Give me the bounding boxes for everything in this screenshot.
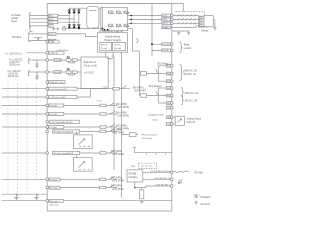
analog block 2 cap branch bbox=[35, 72, 38, 80]
svg-text:input: input bbox=[11, 19, 17, 23]
svg-text:250 mA: 250 mA bbox=[114, 47, 122, 50]
rectifier diode bottom 2 bbox=[73, 25, 76, 28]
svg-text:240V AC, 2A: 240V AC, 2A bbox=[185, 92, 199, 95]
svg-text:(+) I/O Com (24V): (+) I/O Com (24V) bbox=[49, 89, 67, 91]
IGBT glyphs bbox=[63, 11, 129, 29]
left dashed field wiring grid bbox=[8, 83, 37, 193]
svg-text:+10V (PNP): +10V (PNP) bbox=[112, 154, 124, 156]
wire L1 bbox=[30, 15, 48, 17]
svg-text:COM RS-485 C: COM RS-485 C bbox=[155, 185, 170, 187]
terminal RS485 B bbox=[171, 178, 174, 181]
right terminal bus bbox=[171, 4, 173, 212]
left field wire row 105 bbox=[2, 105, 48, 107]
svg-text:Chassis: Chassis bbox=[200, 195, 211, 199]
digin switch row 114 bbox=[106, 111, 117, 114]
terminal relay1 NC bbox=[171, 80, 174, 83]
IGBT U lower bbox=[109, 24, 114, 28]
svg-text:07 DigIn: 07 DigIn bbox=[49, 127, 58, 129]
digin switch row 153 bbox=[106, 150, 117, 153]
digin wire row 114 bbox=[64, 113, 100, 115]
terminal digin 11 bbox=[46, 178, 49, 181]
terminal analog out 54 bbox=[171, 123, 174, 126]
middle vertical rail B bbox=[121, 52, 123, 198]
svg-text:(R) RS-485 (RJ45) A: (R) RS-485 (RJ45) A bbox=[151, 170, 171, 173]
terminal W/T3 bbox=[171, 22, 174, 25]
choke jumper symbol bbox=[34, 37, 42, 40]
terminal relay2 COM bbox=[171, 94, 174, 97]
RS485 direction arrow bbox=[178, 179, 183, 184]
svg-text:+10V: +10V bbox=[49, 42, 55, 44]
relay 2 rating brace B bbox=[181, 95, 184, 104]
relay 2 wire NC bbox=[158, 102, 166, 104]
svg-text:P2/D+: P2/D+ bbox=[49, 34, 56, 36]
svg-text:09 DigIn TermBlk 09: 09 DigIn TermBlk 09 bbox=[53, 152, 73, 155]
left field wire row 127 bbox=[2, 126, 48, 128]
svg-text:T/L3: T/L3 bbox=[49, 22, 54, 24]
black power semiconductors bbox=[68, 10, 153, 189]
relay 2 terminal label boxes bbox=[166, 87, 171, 90]
terminal digin 08 bbox=[46, 130, 49, 133]
svg-text:24V (NPN): 24V (NPN) bbox=[116, 126, 127, 128]
analog out terminal label box 34 bbox=[166, 106, 171, 109]
output junction dot W bbox=[130, 23, 132, 25]
digin resistor row 114 bbox=[100, 113, 106, 116]
wire BR+ bbox=[152, 43, 172, 45]
svg-text:24V (NPN): 24V (NPN) bbox=[111, 177, 122, 179]
middle vertical rail A bbox=[112, 56, 115, 170]
relay 1 terminal label boxes bbox=[166, 64, 171, 67]
terminal analog in 1 bbox=[46, 59, 49, 62]
analog output meter box bbox=[175, 116, 184, 125]
svg-text:(R1) Relay 1: (R1) Relay 1 bbox=[157, 63, 171, 65]
relay 2 wire COM bbox=[158, 95, 166, 97]
analog output meter mark bbox=[178, 119, 182, 123]
brake resistor brace bbox=[179, 42, 182, 52]
svg-text:(0) AnlgOut 0-10V: (0) AnlgOut 0-10V bbox=[149, 114, 165, 117]
digin wire row 105 bbox=[64, 105, 100, 107]
svg-text:DigIn 26 mA: DigIn 26 mA bbox=[84, 61, 97, 64]
svg-text:12 DigIn: 12 DigIn bbox=[50, 188, 59, 190]
terminal box P2 bbox=[48, 33, 56, 36]
connector pin 2 bbox=[200, 20, 203, 22]
digin switch row 179 bbox=[106, 176, 117, 179]
svg-text:05 DigIn: 05 DigIn bbox=[49, 106, 58, 108]
terminal relay2 NO bbox=[171, 87, 174, 90]
SMPS 10V sub-box bbox=[113, 43, 126, 51]
wire capsule to inverter top bbox=[99, 7, 102, 9]
svg-text:DC+/R+: DC+/R+ bbox=[162, 44, 171, 46]
termination ground bbox=[140, 202, 143, 204]
digin switch row 187 bbox=[106, 185, 117, 188]
cable hatch ticks bbox=[178, 15, 196, 25]
label box row 179 bbox=[49, 178, 60, 181]
SW dashed box bbox=[139, 163, 157, 168]
terminal box BR+ bbox=[162, 43, 171, 46]
rectifier diode top 2 bbox=[73, 10, 76, 13]
analog out terminal label box 36 bbox=[166, 116, 171, 119]
svg-text:24V (NPN): 24V (NPN) bbox=[111, 129, 122, 131]
wide label box row 97 bbox=[48, 96, 77, 99]
DC- junction dot bbox=[78, 28, 80, 30]
relay 1 wire NC bbox=[158, 80, 166, 82]
svg-text:OFF shown: OFF shown bbox=[141, 138, 153, 140]
IGBT U upper bbox=[109, 11, 114, 15]
wide label box row 121 RS485 RJ45 bbox=[50, 120, 80, 123]
relay 1 wire NO bbox=[158, 65, 166, 67]
option box contents row 131 bbox=[79, 139, 90, 147]
terminal BR+ bbox=[171, 43, 174, 46]
option box link row 153 bbox=[76, 155, 78, 158]
svg-text:100-20 mA: 100-20 mA bbox=[8, 75, 20, 78]
SMPS output wire B bbox=[112, 52, 114, 55]
svg-text:24V (NPN): 24V (NPN) bbox=[111, 186, 122, 188]
analog input wire 1 bbox=[29, 59, 54, 61]
long label box row 153 bbox=[53, 151, 80, 154]
IGBT W lower bbox=[124, 24, 129, 28]
terminal analog in 2 bbox=[46, 71, 49, 74]
comb bus line bbox=[135, 153, 172, 155]
svg-text:0-20 mA: 0-20 mA bbox=[186, 121, 195, 124]
terminal box PE bbox=[48, 25, 53, 28]
CPU terminator wire bbox=[122, 134, 139, 136]
svg-text:U/T1: U/T1 bbox=[162, 15, 168, 17]
wide label box row 88 bbox=[48, 87, 77, 90]
terminal digin 05 bbox=[46, 104, 49, 107]
terminal box W/T3 bbox=[162, 22, 171, 25]
svg-text:24V (NPN): 24V (NPN) bbox=[111, 151, 122, 153]
motor box bbox=[204, 16, 213, 27]
SMPS output wire A bbox=[104, 52, 106, 57]
connector pin 1 bbox=[200, 17, 203, 19]
digin wire row 131 bbox=[80, 131, 100, 133]
relay 2 coil wires bbox=[139, 94, 158, 96]
svg-text:CPU Terminated: CPU Terminated bbox=[141, 134, 157, 137]
terminal digin 07 bbox=[46, 126, 49, 129]
inner horizontal wire near bottom bbox=[2, 200, 172, 202]
svg-text:08 DigIn TermBlk 08: 08 DigIn TermBlk 08 bbox=[53, 131, 73, 134]
inverter bottom dots bbox=[101, 28, 103, 30]
terminal analog out 36 bbox=[171, 116, 174, 119]
output junction dot V bbox=[130, 19, 132, 21]
SMPS box bbox=[98, 33, 128, 53]
termination resistor wires bbox=[141, 188, 143, 190]
spec box brace bbox=[107, 57, 113, 59]
terminal I/O common bbox=[46, 81, 49, 84]
wire L1 to rectifier bbox=[58, 15, 70, 17]
analog out terminal label box 54 bbox=[166, 123, 171, 126]
svg-text:P(D) RS-485 +B: P(D) RS-485 +B bbox=[155, 178, 171, 180]
label box row 187 bbox=[49, 186, 60, 189]
analog output wires bbox=[172, 117, 175, 124]
terminal BR- bbox=[171, 49, 174, 52]
svg-text:04 NB: 04 NB bbox=[55, 72, 62, 74]
inverter box bbox=[101, 7, 128, 30]
motor connector block bbox=[199, 16, 204, 27]
analog block 1 bracket bbox=[29, 59, 30, 64]
drive ground symbol 2 bbox=[187, 31, 191, 35]
svg-text:11 DigIn: 11 DigIn bbox=[50, 180, 59, 182]
svg-text:PE: PE bbox=[49, 26, 51, 28]
terminal U/T1 bbox=[171, 14, 174, 17]
CPU terminator box bbox=[129, 133, 136, 137]
T antenna symbol bbox=[133, 147, 136, 152]
left field wire row 88 bbox=[2, 88, 48, 90]
terminal V/T2 bbox=[171, 18, 174, 21]
terminal digin 09 bbox=[46, 152, 49, 155]
wire BR- bbox=[152, 49, 172, 51]
svg-text:Power Supply: Power Supply bbox=[104, 38, 121, 42]
connector pin 4 bbox=[200, 25, 203, 27]
wire L3 to rectifier bbox=[58, 21, 79, 23]
wire +10V supply bbox=[27, 52, 49, 54]
terminal digin 06 bbox=[46, 113, 49, 116]
relay 1 coil wires bbox=[139, 72, 158, 74]
terminal box U/T1 bbox=[162, 14, 171, 17]
svg-text:13 DigIn C: 13 DigIn C bbox=[50, 201, 61, 203]
ground PE symbol 1 bbox=[52, 27, 55, 30]
digin wire row 153 bbox=[80, 152, 100, 154]
wire DC- P1 bbox=[29, 40, 48, 42]
rectifier DC+ top bus bbox=[69, 7, 87, 9]
termination resistor bbox=[140, 190, 144, 199]
analog input wire 2 bbox=[29, 71, 54, 73]
motor ground symbol bbox=[213, 28, 216, 30]
relay 2 contact blade bbox=[156, 91, 159, 95]
rail brace bbox=[136, 39, 138, 43]
RS485 wire 2 bbox=[143, 178, 172, 180]
relay 1 coil bbox=[140, 72, 146, 76]
terminal relay2 NC bbox=[171, 102, 174, 105]
drive enclosure top edge bbox=[47, 4, 183, 12]
wire PE bbox=[30, 26, 48, 32]
motor hatch bar bbox=[198, 26, 208, 27]
svg-text:+10V (PNP): +10V (PNP) bbox=[112, 133, 124, 135]
wire P2 to DC link bbox=[56, 34, 97, 37]
terminal RS485 A bbox=[171, 171, 174, 174]
svg-text:(-)10V In: (-)10V In bbox=[49, 53, 58, 55]
svg-text:DC-/R-: DC-/R- bbox=[162, 50, 169, 52]
opto group row1 bbox=[66, 59, 71, 62]
motor cable wire U bbox=[172, 15, 199, 17]
motor ground stub bbox=[213, 20, 215, 28]
RS485 wire 1 bbox=[143, 171, 172, 173]
svg-text:06 DigIn: 06 DigIn bbox=[49, 114, 58, 116]
analog block 2 bracket bbox=[29, 71, 30, 76]
rectifier DC- bottom bus bbox=[66, 27, 102, 29]
relay 2 wire NO bbox=[158, 87, 166, 89]
digital input spec box bbox=[81, 57, 108, 88]
digin switch row 88 bbox=[119, 86, 130, 89]
DC bus choke text bracket bbox=[29, 33, 30, 42]
svg-text:24V (NPN): 24V (NPN) bbox=[116, 104, 127, 106]
IGBT W upper bbox=[124, 11, 129, 15]
svg-text:Motor: Motor bbox=[202, 28, 209, 32]
svg-text:A Com: A Com bbox=[153, 119, 159, 122]
opto label box row2 bbox=[54, 71, 61, 74]
rectifier column 1 bbox=[68, 8, 70, 28]
opto group row2 bbox=[66, 71, 71, 74]
terminal box FRAME bbox=[162, 26, 171, 29]
terminal digin 13 bbox=[46, 199, 49, 202]
terminal label box supply bbox=[49, 51, 65, 54]
svg-text:Int. control power supply unit: Int. control power supply unit bbox=[99, 30, 124, 33]
svg-text:+10V (PNP): +10V (PNP) bbox=[112, 181, 124, 183]
svg-text:Off up: on DC: Off up: on DC bbox=[84, 65, 98, 67]
digin resistor row 179 bbox=[100, 178, 106, 181]
wire DC+ P2 bbox=[29, 33, 48, 35]
brake chopper feed wire bbox=[151, 4, 153, 57]
left field wire row 97 bbox=[2, 96, 48, 98]
connector pin 3 bbox=[200, 22, 203, 24]
svg-text:RS-485: RS-485 bbox=[195, 172, 204, 175]
relay 1 contact vertical bbox=[157, 66, 159, 81]
terminal 10V supply bbox=[46, 52, 49, 55]
drive enclosure bottom edge bbox=[47, 210, 172, 212]
IGBT V lower bbox=[117, 24, 122, 28]
digin switch row 127 bbox=[106, 124, 117, 127]
svg-text:04 NB: 04 NB bbox=[55, 60, 62, 62]
svg-text:W/T3: W/T3 bbox=[162, 23, 168, 25]
digin switch row 131 bbox=[106, 129, 117, 132]
RS485 cable squiggle bbox=[172, 171, 189, 173]
terminal RS485 C bbox=[171, 185, 174, 188]
IGBT V upper bbox=[117, 11, 122, 15]
svg-text:Analog Output: Analog Output bbox=[186, 118, 201, 121]
terminal box P1 bbox=[48, 39, 56, 42]
capsule inner bar top bbox=[89, 9, 96, 11]
label box row 105 bbox=[48, 104, 64, 107]
svg-text:10V DC: 10V DC bbox=[114, 45, 122, 47]
svg-text:+10V (PNP): +10V (PNP) bbox=[117, 107, 129, 109]
cable shield dashed line bbox=[176, 12, 205, 16]
rectifier diode top 3 bbox=[77, 10, 80, 13]
svg-text:S/L2: S/L2 bbox=[49, 19, 54, 21]
legend chassis symbol bbox=[193, 194, 200, 204]
RS-485 interface box bbox=[127, 170, 143, 182]
left field wire row 114 bbox=[2, 113, 48, 115]
3-phase input bracket bbox=[30, 13, 32, 27]
terminal box T/L3 bbox=[48, 21, 58, 24]
capsule inner bar bottom bbox=[92, 27, 97, 29]
SMPS 24V sub-box bbox=[100, 43, 112, 51]
svg-text:to 300 Ohm: to 300 Ohm bbox=[57, 49, 69, 52]
svg-text:V/T2: V/T2 bbox=[162, 19, 167, 21]
option box link row 131 bbox=[76, 132, 78, 135]
potentiometer symbol 2 bbox=[34, 194, 39, 199]
RS485 wire 3 bbox=[135, 182, 172, 188]
svg-text:100-20 mA: 100-20 mA bbox=[9, 64, 21, 67]
analog block 1 cap branch bbox=[35, 60, 38, 68]
digin resistor row 153 bbox=[100, 152, 106, 155]
svg-text:(0/M) I/O Com: (0/M) I/O Com bbox=[49, 82, 63, 84]
terminal circles right bus bbox=[171, 14, 174, 187]
svg-text:(-) +10V DC In: (-) +10V DC In bbox=[5, 52, 22, 55]
terminal +10V ref bbox=[46, 40, 49, 43]
potentiometer symbol 1 bbox=[14, 194, 19, 199]
terminal box BR- bbox=[162, 49, 171, 52]
digin switch row 105 bbox=[106, 103, 117, 106]
svg-text:30V DC, 2A: 30V DC, 2A bbox=[183, 73, 196, 76]
svg-text:SW1: SW1 bbox=[131, 166, 136, 168]
drive enclosure left bus bbox=[46, 4, 48, 212]
ground PE symbol 2 bbox=[56, 27, 59, 30]
svg-text:Interface: Interface bbox=[129, 176, 139, 179]
svg-text:P 1-02: P 1-02 bbox=[102, 87, 107, 89]
svg-text:RS-485: RS-485 bbox=[129, 174, 137, 176]
brake junction dot bbox=[151, 43, 153, 45]
svg-text:75 mA: 75 mA bbox=[101, 47, 107, 50]
terminal label box +10V bbox=[49, 40, 60, 43]
terminal relay1 COM bbox=[171, 72, 174, 75]
wire output V bbox=[128, 18, 162, 20]
inverter DC rail bbox=[101, 7, 103, 30]
option box row 153 bbox=[73, 158, 92, 172]
terminal box V/T2 bbox=[162, 18, 171, 21]
label box row 127 bbox=[48, 126, 64, 129]
svg-text:30V DC, 2A: 30V DC, 2A bbox=[185, 100, 198, 103]
drive ground symbol 1 bbox=[177, 31, 181, 35]
motor cable wire W bbox=[172, 22, 199, 24]
wire output W bbox=[128, 22, 162, 24]
motor cable wire ground bbox=[171, 26, 199, 28]
option box contents row 153 bbox=[79, 161, 90, 169]
SW box contents bbox=[142, 165, 152, 167]
terminal C1 C2 RJ45 bbox=[46, 121, 49, 124]
svg-text:24V DC: 24V DC bbox=[101, 45, 109, 47]
output junction dot U bbox=[130, 15, 132, 17]
svg-text:Ground: Ground bbox=[200, 202, 210, 206]
SMPS feed wire bbox=[128, 29, 140, 51]
svg-text:24V (NPN): 24V (NPN) bbox=[116, 113, 127, 115]
terminal circles left bus bbox=[46, 40, 49, 202]
digin resistor row 88 bbox=[113, 87, 120, 90]
svg-text:(-) I/O Com (24V): (-) I/O Com (24V) bbox=[49, 97, 66, 99]
terminal I/O com 24V bbox=[46, 87, 49, 90]
terminal box S/L2 bbox=[48, 18, 58, 21]
digin resistor row 131 bbox=[100, 130, 106, 133]
DC bus capsule bbox=[87, 6, 99, 28]
terminal I/O com neg bbox=[46, 96, 49, 99]
label box row 200 bbox=[49, 199, 64, 202]
svg-text:R/L1: R/L1 bbox=[49, 16, 54, 18]
svg-text:+/-0 V DC: +/-0 V DC bbox=[84, 73, 94, 75]
digin wire row 127 bbox=[64, 126, 100, 128]
digin resistor row 105 bbox=[100, 104, 106, 107]
opto label box row1 bbox=[54, 59, 61, 62]
svg-text:resistor: resistor bbox=[184, 47, 192, 50]
left field wire row 179 bbox=[2, 178, 48, 180]
MOV circle bbox=[62, 27, 66, 31]
long label box row 131 bbox=[53, 130, 80, 133]
terminal label box 82 bbox=[49, 81, 66, 84]
digin resistor row 187 bbox=[100, 186, 106, 189]
terminal analog out 34 bbox=[171, 106, 174, 109]
svg-text:(C1,C2) RS485 (RJ45): (C1,C2) RS485 (RJ45) bbox=[50, 122, 72, 124]
rectifier diode bottom 3 bbox=[77, 25, 80, 28]
wire L2 bbox=[30, 18, 48, 20]
left field wire row 194 bbox=[2, 193, 47, 195]
drive output ground wire bbox=[172, 30, 189, 32]
rectifier column 3 bbox=[78, 8, 80, 28]
relay 1 contact blade bbox=[156, 69, 159, 73]
relay 1 wire COM bbox=[158, 73, 166, 75]
rectifier column 2 bbox=[73, 8, 75, 28]
svg-text:+10V (PNP): +10V (PNP) bbox=[134, 91, 146, 93]
digin wire row 88 bbox=[77, 88, 113, 90]
wire L2 to rectifier bbox=[58, 18, 74, 20]
terminal box R/L1 bbox=[48, 14, 58, 17]
svg-text:24V (NPN): 24V (NPN) bbox=[133, 87, 144, 89]
